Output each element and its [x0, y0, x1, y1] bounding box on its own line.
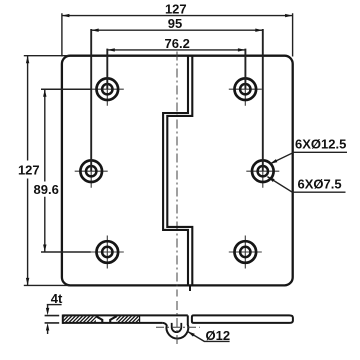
leaf parting line B (right leaf edge): [167, 56, 192, 286]
hole H2 crosshair (left middle): [75, 155, 108, 188]
leader 6X7.5: arrow: [267, 177, 274, 182]
side view: left leaf right end: [187, 315, 189, 324]
svg-text:6XØ7.5: 6XØ7.5: [298, 177, 342, 192]
svg-text:127: 127: [165, 2, 187, 17]
svg-text:76.2: 76.2: [165, 36, 190, 51]
dim 4t: lower arrow: [46, 323, 49, 331]
side view: knuckle outer arc: [162, 323, 188, 339]
dim 89.6: arrows: [43, 89, 46, 97]
side view: left leaf top edge: [63, 314, 188, 316]
dim 4t: extension lines: [45, 316, 60, 323]
side view: right leaf bar: [192, 315, 293, 323]
knuckle gap stub below plate bottom edge: [189, 285, 191, 291]
hole H5 crosshair (right middle): [246, 155, 279, 188]
hole H6 circles (right bottom): [235, 241, 257, 263]
svg-text:Ø12: Ø12: [206, 328, 231, 343]
dim 127 left: dimension line (broken for text): [27, 56, 29, 286]
svg-text:95: 95: [168, 16, 182, 31]
dim 95: arrows: [91, 29, 99, 32]
hole H6 crosshair (right bottom): [229, 236, 262, 269]
dim 4t: text shelf: [47, 304, 62, 306]
dim 76.2: dimension line: [107, 49, 245, 51]
side view: knuckle axis centerline: [156, 326, 200, 328]
side view: hatch region 1: [57, 315, 105, 323]
side view: knuckle pin hole: [172, 323, 182, 332]
side view: left leaf left end: [62, 315, 64, 324]
hole H3 circles (left bottom): [97, 241, 119, 263]
dim 76.2: extension lines: [107, 49, 245, 90]
side view: countersink right wall: [110, 316, 116, 323]
dim 4t: lower arrow tail: [47, 330, 49, 334]
dim 127 top: dimension line: [62, 15, 293, 17]
svg-text:89.6: 89.6: [34, 182, 59, 197]
side view: countersink left wall: [96, 316, 102, 323]
side view: left leaf bottom edge: [63, 322, 163, 324]
dim 95: extension lines: [91, 29, 263, 171]
leader dia12: line: [187, 331, 229, 341]
hole H4 circles (right top): [235, 78, 257, 100]
dim 127 top: extension lines: [62, 13, 293, 56]
svg-text:127: 127: [18, 162, 40, 177]
leader 6X7.5: line: [267, 177, 345, 193]
centerline (vertical, plan view): [176, 52, 178, 297]
plate outline (hinge, plan view): [62, 56, 293, 286]
svg-text:4t: 4t: [51, 291, 63, 306]
hole H5 circles (right middle): [252, 160, 274, 182]
hole H4 crosshair (right top): [229, 73, 262, 106]
leaf parting line A (left leaf edge): [163, 56, 188, 286]
hole H3 crosshair (left bottom): [91, 236, 124, 269]
hole H1 crosshair (left top): [91, 73, 124, 106]
side view: vertical centerline: [176, 301, 178, 346]
side view: section break line: [139, 316, 141, 323]
dim 4t: upper arrow: [46, 308, 49, 316]
dim 127 left: extension lines: [24, 56, 69, 286]
dim 89.6: extension lines: [41, 89, 91, 252]
leader 6X12.5: arrow: [270, 159, 277, 164]
dim 89.6: dimension line (broken for text): [44, 89, 46, 252]
leader 6X12.5: line: [270, 152, 347, 164]
hole H1 circles (left top): [97, 78, 119, 100]
dim 127 left: arrows: [26, 56, 29, 64]
dim 95: dimension line: [91, 29, 263, 31]
hole H2 circles (left middle): [80, 160, 102, 182]
dim 76.2: arrows: [107, 48, 115, 51]
dim 127 top: arrows: [62, 14, 70, 17]
side view: hatch region 2: [110, 315, 147, 323]
svg-text:6XØ12.5: 6XØ12.5: [295, 137, 346, 152]
leader dia12: arrow: [187, 331, 194, 336]
dim 4t: upper arrow tail: [47, 305, 49, 309]
